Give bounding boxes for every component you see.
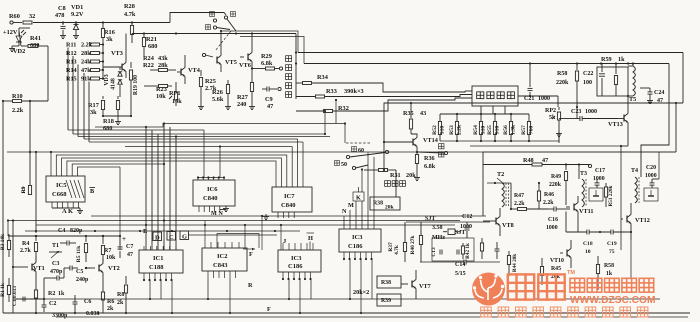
- svg-text:TM: TM: [567, 270, 575, 276]
- svg-text:IC6: IC6: [207, 186, 218, 193]
- resistor R8 label: [117, 292, 124, 306]
- resistor R32 label: [338, 105, 349, 112]
- IC U6 C840: [193, 180, 235, 206]
- label R: [248, 282, 253, 289]
- svg-text:R29: R29: [261, 53, 272, 60]
- resistor R10 label: [12, 93, 24, 114]
- svg-text:910: 910: [494, 126, 500, 135]
- resistor R18: [115, 96, 121, 125]
- capacitor C6 label: [84, 299, 100, 317]
- watermark weiku big text: [508, 270, 576, 300]
- wire R11 branch: [67, 47, 69, 49]
- wire long rail A: [298, 52, 683, 54]
- transformer T4: [635, 177, 639, 203]
- svg-text:R16: R16: [104, 29, 115, 36]
- resistor R33 label: [326, 88, 364, 95]
- resistor R4: [34, 236, 37, 262]
- spacer: [0, 0, 1, 1]
- svg-text:R6: R6: [107, 299, 114, 305]
- capacitor C1: [23, 297, 25, 302]
- svg-text:R10: R10: [12, 93, 23, 100]
- svg-text:2.2k: 2.2k: [543, 200, 554, 206]
- wire ladder right bus: [102, 42, 104, 80]
- wire IC4 pins: [343, 252, 373, 260]
- potentiometer RP1 label: [169, 90, 182, 105]
- svg-text:H: H: [308, 235, 313, 242]
- svg-text:VT12: VT12: [635, 217, 650, 224]
- wire VD2 anode: [19, 28, 30, 31]
- svg-text:IC3: IC3: [352, 234, 363, 241]
- shield T4: [644, 188, 658, 201]
- svg-text:R3 10k: R3 10k: [0, 234, 6, 250]
- wire vt11 base down: [565, 212, 567, 233]
- watermark slogan: [481, 307, 648, 317]
- resistor R36 label: [424, 155, 436, 170]
- svg-text:R24: R24: [143, 55, 155, 62]
- resistor R37: [403, 222, 406, 262]
- resistor R58b label: [604, 263, 614, 277]
- resistor R6 label: [107, 299, 114, 312]
- resistor R53 2.2k: [449, 114, 462, 141]
- svg-text:IC5: IC5: [56, 182, 67, 189]
- svg-text:2k: 2k: [107, 306, 114, 312]
- svg-text:4148: 4148: [111, 78, 117, 90]
- wire IC bottom drops: [149, 259, 372, 314]
- wire crystal bottom: [420, 260, 500, 265]
- resistor R17: [101, 96, 104, 117]
- transistor VT2 label: [108, 265, 120, 272]
- svg-text:50: 50: [341, 162, 347, 168]
- svg-text:240p: 240p: [76, 277, 89, 283]
- capacitor C13 + partner: [440, 250, 459, 255]
- junction dots osc: [35, 230, 37, 237]
- resistor R6: [101, 292, 104, 313]
- label F2: [267, 306, 271, 313]
- node +12V input terminal: [10, 21, 22, 24]
- box T5 tank: [597, 67, 628, 96]
- svg-text:C668: C668: [52, 191, 67, 198]
- svg-text:F: F: [249, 251, 253, 258]
- svg-text:1000: 1000: [593, 176, 605, 182]
- svg-text:VT14: VT14: [423, 137, 438, 144]
- svg-text:C20: C20: [646, 165, 656, 171]
- svg-text:R26: R26: [212, 89, 223, 96]
- svg-text:R1 1k: R1 1k: [0, 283, 6, 297]
- svg-text:VT8: VT8: [502, 222, 514, 229]
- svg-text:R52: R52: [432, 125, 438, 135]
- resistor R38b box: [377, 276, 401, 288]
- resistor R31 label: [390, 172, 416, 179]
- capacitor C21: [528, 62, 533, 96]
- svg-text:WWW.DZSC.COM: WWW.DZSC.COM: [570, 295, 655, 306]
- svg-text:43k: 43k: [158, 55, 168, 62]
- switch field50 label: [334, 161, 347, 168]
- svg-text:5.6k: 5.6k: [212, 96, 224, 103]
- transistor VT10 + R45 label: [550, 258, 564, 280]
- resistor R18 label: [103, 118, 114, 132]
- wire IC2 bottom pins: [208, 271, 236, 278]
- svg-text:2.2k: 2.2k: [514, 201, 525, 207]
- capacitor C4: [60, 241, 76, 246]
- label Bbar: [90, 188, 96, 196]
- svg-text:R57: R57: [521, 125, 527, 135]
- potentiometer RP2 label: [545, 108, 556, 121]
- resistor R54 510: [473, 114, 486, 141]
- svg-text:R31: R31: [390, 172, 401, 179]
- transistor VT11 label: [579, 208, 593, 215]
- resistor R55 910: [487, 114, 500, 141]
- watermark logo circle: [472, 273, 505, 306]
- svg-text:43: 43: [420, 110, 426, 117]
- wire bottom rail 1: [13, 298, 660, 300]
- resistor R47: [510, 183, 548, 211]
- labels SJT C12: [425, 214, 472, 222]
- capacitor C5 label: [76, 269, 89, 283]
- capacitor C18 label: [583, 241, 593, 255]
- svg-text:K: K: [356, 195, 361, 202]
- resistor R17 label: [88, 102, 99, 116]
- svg-text:C13: C13: [431, 247, 437, 257]
- svg-text:24k: 24k: [81, 59, 91, 66]
- svg-text:3k: 3k: [90, 109, 97, 116]
- capacitor C2: [42, 300, 47, 312]
- IC U2 C843: [202, 248, 247, 271]
- diode VD3 string: [118, 67, 122, 97]
- svg-text:60: 60: [358, 148, 364, 154]
- transistor VT8: [483, 208, 500, 236]
- wire IC1 bottom pins: [143, 273, 173, 281]
- svg-text:C18: C18: [583, 241, 593, 247]
- resistor R41: [19, 31, 48, 101]
- svg-text:R: R: [248, 282, 253, 289]
- capacitor C20: [650, 179, 660, 188]
- svg-text:R40 27k: R40 27k: [410, 235, 416, 254]
- svg-text:A K: A K: [62, 208, 73, 215]
- wire R32 vertical: [324, 99, 337, 134]
- svg-text:SJT: SJT: [425, 216, 435, 222]
- capacitor C3: [52, 276, 64, 281]
- svg-text:1000: 1000: [585, 109, 597, 115]
- transistor VT12: [621, 203, 631, 240]
- wire to switch: [170, 13, 226, 23]
- transistor VT6: [240, 34, 252, 79]
- resistor R26 label: [212, 89, 224, 103]
- svg-text:R56: R56: [503, 125, 509, 135]
- resistor R47 label: [514, 193, 525, 207]
- wire box left side: [35, 152, 37, 233]
- capacitor C22 label: [583, 71, 593, 86]
- transistor VT3 label: [111, 50, 123, 57]
- svg-text:0.033: 0.033: [86, 311, 100, 317]
- resistor R15 91k: [66, 76, 103, 83]
- wire emitter node: [103, 97, 132, 117]
- wire IC1 top pins: [144, 246, 176, 250]
- ground RP2 rail: [556, 131, 562, 141]
- resistor R58 label: [556, 71, 569, 86]
- transistor VT5 label: [225, 59, 237, 66]
- resistor R39 box: [377, 294, 401, 306]
- switch field50: [352, 165, 368, 171]
- wire long rail B: [304, 63, 669, 65]
- potentiometer RP1: [169, 82, 178, 106]
- IC U5 C668: [46, 176, 85, 202]
- capacitor net3: [495, 242, 500, 259]
- resistor R10: [2, 100, 48, 153]
- label audio out: [439, 144, 448, 157]
- wire IC5 bottom pins: [52, 202, 83, 214]
- wire IC7 bottom pins: [263, 212, 294, 220]
- wire osc rail2: [35, 235, 121, 237]
- wire IC6 bottom pins: [199, 206, 229, 212]
- resistor R35: [409, 102, 412, 134]
- svg-text:20k: 20k: [406, 172, 416, 179]
- potentiometer RP2: [552, 107, 561, 143]
- resistor R5: [84, 236, 87, 262]
- capacitor C3 label: [50, 261, 63, 275]
- svg-text:C7: C7: [126, 244, 133, 250]
- svg-text:E: E: [143, 228, 147, 235]
- svg-text:6.8k: 6.8k: [261, 60, 273, 67]
- svg-text:+12V: +12V: [3, 29, 18, 36]
- resistor R38 box: [370, 197, 400, 211]
- transistor VT14: [383, 134, 417, 152]
- IC shading-bar forming box: [472, 86, 518, 106]
- svg-text:R41: R41: [30, 35, 41, 42]
- svg-text:R51 220k: R51 220k: [608, 185, 614, 206]
- svg-text:R42 1k: R42 1k: [465, 243, 471, 259]
- resistor R48: [483, 163, 590, 166]
- svg-text:1000: 1000: [546, 225, 558, 231]
- svg-text:VT4: VT4: [188, 67, 201, 74]
- svg-text:C19: C19: [607, 241, 617, 247]
- wire IC6 pin feeds: [197, 130, 225, 180]
- wire loop top: [384, 102, 683, 170]
- transistor VT8 label: [502, 222, 514, 229]
- switch link dashed: [215, 31, 231, 51]
- capacitor C2 label: [49, 301, 68, 319]
- svg-text:47: 47: [267, 103, 273, 110]
- resistor R34 + wire: [296, 82, 465, 93]
- transistor VT7 label: [419, 283, 431, 290]
- resistor R44 label: [512, 254, 518, 272]
- switch contact brown: [205, 25, 216, 30]
- resistor R28: [130, 23, 133, 44]
- LED VD2 label: [13, 48, 25, 55]
- zener VD1 label: [71, 4, 84, 18]
- svg-text:R9: R9: [21, 186, 27, 193]
- wire crystal top + C12: [406, 222, 490, 238]
- svg-text:D: D: [155, 235, 160, 242]
- resistor net2: [480, 238, 483, 259]
- svg-text:R36: R36: [424, 155, 435, 162]
- transformer T2 label: [497, 171, 504, 178]
- wire IC5 pin risers: [50, 151, 287, 250]
- capacitor C18: [566, 230, 611, 235]
- svg-text:R58: R58: [604, 263, 614, 269]
- resistor R60: [23, 21, 32, 24]
- resistor R11 2.2k: [66, 42, 103, 49]
- resistor R59 label: [601, 56, 625, 63]
- svg-text:C186: C186: [288, 263, 303, 270]
- svg-text:VT2: VT2: [108, 265, 120, 272]
- transformer T3: [579, 165, 586, 208]
- resistor R1: [0, 278, 11, 302]
- capacitor C20 label: [645, 165, 657, 179]
- svg-text:10k: 10k: [106, 255, 116, 261]
- svg-text:R35: R35: [403, 110, 414, 117]
- junctions bottom: [35, 298, 127, 314]
- svg-text:1.3k: 1.3k: [510, 124, 516, 135]
- resistor R52 510: [432, 114, 445, 141]
- svg-text:T1: T1: [52, 243, 59, 249]
- svg-text:T2: T2: [497, 171, 504, 178]
- svg-text:C3: C3: [52, 261, 59, 267]
- svg-text:510: 510: [439, 126, 445, 135]
- transformer T4 label: [631, 168, 638, 174]
- label M Nbar: [211, 210, 226, 218]
- capacitor C7 label: [122, 235, 133, 258]
- svg-text:47: 47: [127, 252, 133, 258]
- resistor R32 + wire: [296, 98, 472, 113]
- svg-text:820p: 820p: [70, 228, 83, 234]
- svg-text:91k: 91k: [81, 76, 91, 83]
- wire R15 branch: [88, 81, 90, 83]
- svg-text:240: 240: [237, 101, 246, 108]
- svg-text:10: 10: [585, 249, 591, 255]
- transistor VT11: [566, 196, 578, 232]
- svg-text:100: 100: [583, 80, 592, 86]
- svg-text:VT10: VT10: [550, 258, 564, 264]
- svg-text:T5: T5: [629, 96, 636, 103]
- svg-text:220k: 220k: [549, 182, 562, 188]
- svg-text:SJT: SJT: [455, 230, 465, 236]
- resistor R23 label: [156, 86, 167, 100]
- wire top rail: [33, 21, 170, 23]
- wire c4: [102, 235, 104, 237]
- capacitor C5: [64, 266, 78, 271]
- svg-text:C6: C6: [84, 299, 91, 305]
- svg-text:390k×3: 390k×3: [344, 88, 364, 95]
- label A K: [62, 208, 73, 215]
- wire c3/c2: [13, 268, 64, 299]
- svg-text:T4: T4: [631, 168, 638, 174]
- wire bus band verticals: [145, 122, 177, 250]
- svg-text:R45: R45: [551, 266, 561, 272]
- svg-text:C16: C16: [548, 217, 558, 223]
- resistor tank: [614, 64, 617, 97]
- resistor R29: [251, 67, 283, 70]
- resistor R7: [101, 236, 104, 262]
- svg-text:4.7k: 4.7k: [394, 245, 400, 255]
- capacitor C9 label: [265, 96, 273, 110]
- labels J H: [262, 216, 314, 250]
- zener diode VD1: [73, 23, 79, 39]
- svg-text:2.2k: 2.2k: [456, 124, 462, 135]
- svg-text:VT3: VT3: [111, 50, 123, 57]
- resistor R19: [129, 62, 132, 97]
- capacitor C16: [548, 207, 570, 212]
- wire left rail: [2, 100, 4, 313]
- labels M N: [342, 202, 354, 215]
- wire R13 branch: [77, 64, 79, 66]
- resistor R35 label: [403, 110, 426, 117]
- transformer T5: [628, 66, 636, 103]
- svg-text:R22: R22: [143, 62, 154, 69]
- transistor VT10: [560, 240, 571, 268]
- capacitor C23: [564, 116, 618, 121]
- svg-text:6.8k: 6.8k: [424, 163, 436, 170]
- transistor VT2: [85, 258, 103, 292]
- svg-text:VT7: VT7: [419, 283, 431, 290]
- wire right corner B: [641, 64, 669, 178]
- svg-text:C843: C843: [213, 262, 228, 269]
- svg-text:1k: 1k: [606, 271, 613, 277]
- svg-text:VT5: VT5: [225, 59, 237, 66]
- svg-text:680: 680: [103, 125, 112, 132]
- capacitor C19 label: [607, 241, 617, 255]
- resistor R37 label: [388, 242, 400, 255]
- LED VD2: [9, 30, 26, 52]
- wire: [36, 267, 87, 290]
- capacitor C24 label: [654, 90, 664, 104]
- svg-text:R11: R11: [66, 42, 76, 49]
- capacitor C16 label: [546, 217, 558, 231]
- capacitor C21 label: [524, 96, 550, 102]
- wire left side T2 box: [482, 152, 484, 216]
- resistor R19 label: [133, 75, 139, 95]
- resistor R27 label: [237, 94, 248, 108]
- svg-text:R33: R33: [326, 88, 337, 95]
- resistor R46 label: [543, 192, 554, 206]
- transistor VT7: [401, 270, 416, 299]
- resistor R21 label: [146, 36, 157, 50]
- svg-text:2k: 2k: [117, 300, 124, 306]
- wire osc: [8, 235, 45, 237]
- wire oscillator top rail: [25, 230, 300, 232]
- svg-text:R8: R8: [117, 292, 124, 298]
- svg-text:R49: R49: [551, 174, 561, 180]
- resistor R21: [142, 34, 145, 57]
- resistor R7 label: [104, 248, 116, 261]
- capacitor C7: [118, 236, 123, 258]
- svg-text:1000: 1000: [538, 96, 550, 102]
- watermark dzsc text: [570, 278, 654, 292]
- wire vt12 emitter: [630, 240, 632, 278]
- capacitor C17 label: [593, 168, 605, 182]
- capacitor C1 label: [12, 286, 18, 306]
- resistor R22: [150, 69, 176, 72]
- svg-text:C840: C840: [281, 202, 295, 209]
- resistor R14 47k: [66, 67, 103, 74]
- svg-text:C4: C4: [58, 228, 65, 234]
- svg-text:R47: R47: [514, 193, 524, 199]
- svg-text:1k: 1k: [618, 56, 625, 63]
- crystal SJT2: [443, 229, 460, 235]
- label control noise: [385, 181, 406, 187]
- resistor R12 28k: [66, 50, 103, 57]
- wire T5 top: [632, 64, 634, 67]
- svg-text:32: 32: [29, 13, 35, 20]
- resistor R49 label: [549, 174, 562, 188]
- svg-text:470p: 470p: [50, 269, 63, 275]
- svg-text:R44 20k: R44 20k: [512, 254, 518, 272]
- wire into box: [465, 90, 472, 92]
- wire IC7 pin feeds: [292, 139, 303, 187]
- transformer T3 label: [580, 164, 592, 177]
- svg-text:R19 100: R19 100: [133, 75, 139, 95]
- svg-text:75: 75: [609, 249, 615, 255]
- svg-text:C2: C2: [49, 301, 56, 307]
